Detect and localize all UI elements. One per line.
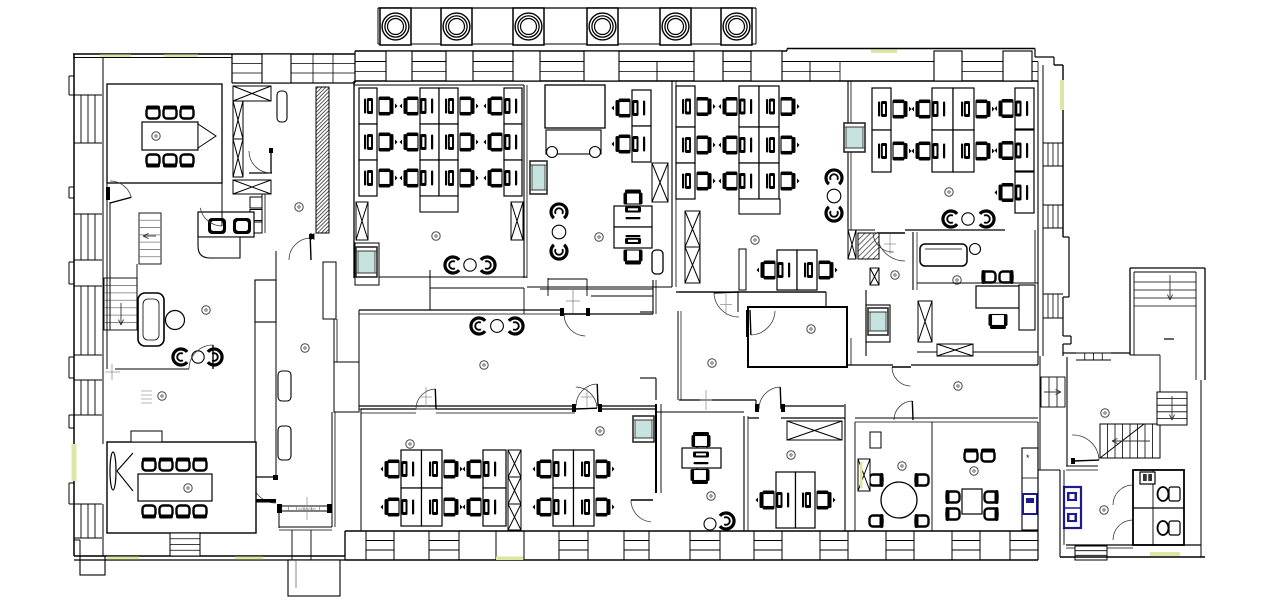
svg-text:*: * xyxy=(1026,453,1030,463)
